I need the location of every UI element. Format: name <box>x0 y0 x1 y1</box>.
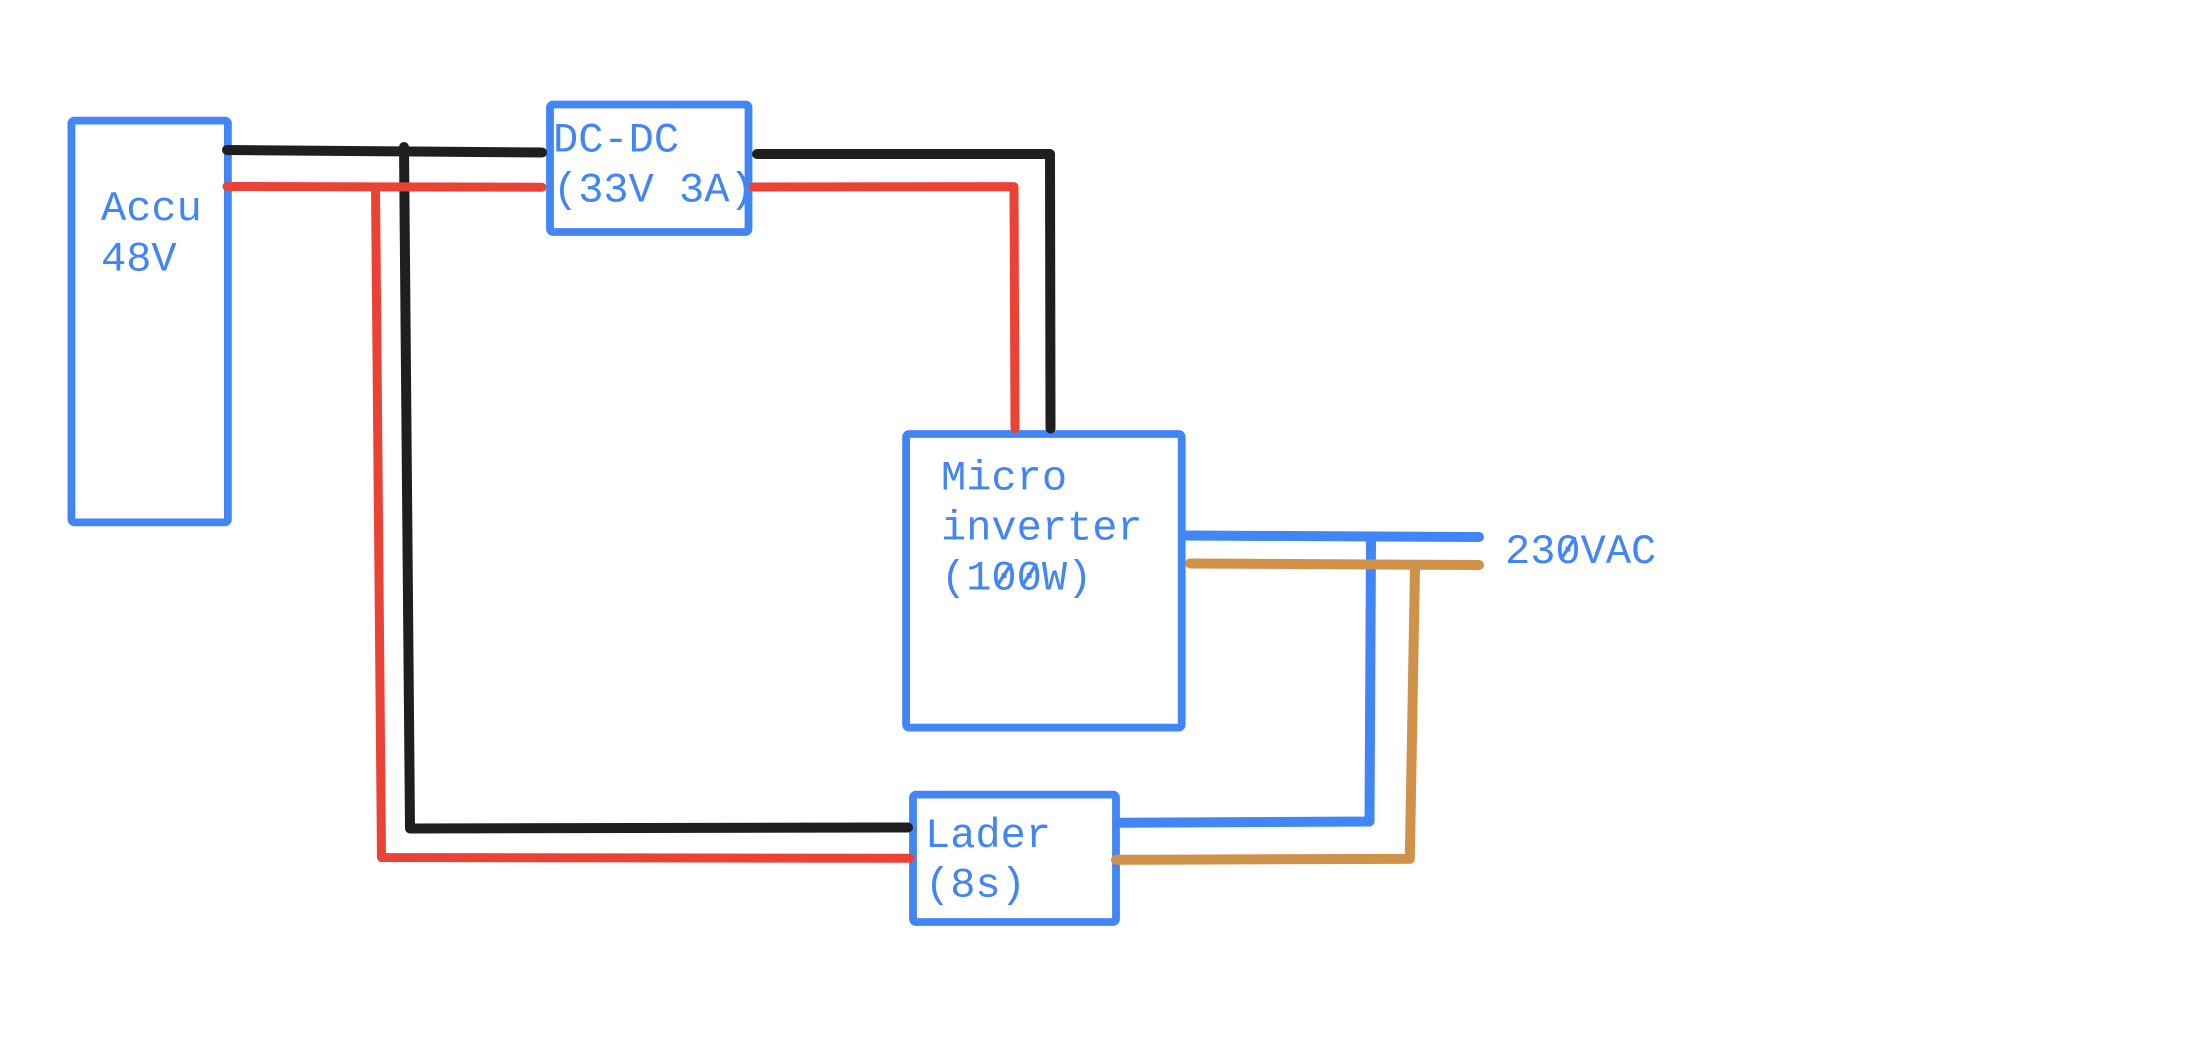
label Micro inverter (100W) <box>941 455 1143 603</box>
wire red branch vertical + bottom run to Lader <box>376 187 911 858</box>
svg-text:DC-DC: DC-DC <box>553 116 679 164</box>
svg-text:(100W): (100W) <box>941 555 1092 603</box>
label DC-DC (33V 3A) <box>553 116 755 214</box>
svg-text:230VAC: 230VAC <box>1505 528 1656 576</box>
svg-text:48V: 48V <box>101 236 177 284</box>
svg-text:Micro: Micro <box>941 455 1067 503</box>
svg-text:(33V 3A): (33V 3A) <box>553 166 755 214</box>
label Lader (8s) <box>925 812 1051 909</box>
box Lader (8s) <box>913 795 1116 922</box>
svg-text:Accu: Accu <box>101 185 202 233</box>
box DC-DC (33V 3A) <box>550 105 749 233</box>
label Accu 48V <box>101 185 202 284</box>
wire blue vertical drop to Lader <box>1117 539 1371 823</box>
wire blue Micro inverter AC line to 230VAC <box>1184 536 1479 538</box>
slashed zero mark 230VAC <box>1562 539 1575 559</box>
box Accu 48V <box>71 121 228 523</box>
wire black DC-DC to Micro inverter <box>757 154 1051 429</box>
slashed zero marks (100W) <box>998 565 1036 585</box>
box Micro inverter (100W) <box>906 434 1182 728</box>
wire red DC-DC to Micro inverter <box>753 187 1015 429</box>
svg-text:inverter: inverter <box>941 505 1143 553</box>
wire orange Micro inverter AC line to 230VAC <box>1190 564 1479 566</box>
wire orange vertical drop to Lader <box>1116 568 1415 860</box>
wire red Accu to DC-DC <box>227 182 542 192</box>
wire black branch vertical + bottom run to Lader <box>404 147 908 829</box>
wire black Accu to DC-DC <box>227 150 542 153</box>
svg-text:Lader: Lader <box>925 812 1051 860</box>
svg-text:(8s): (8s) <box>925 861 1026 909</box>
